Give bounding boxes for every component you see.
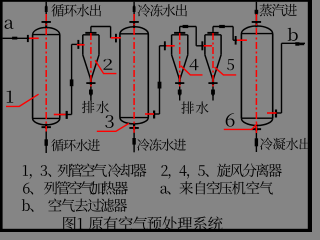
flange cyclone 2 inlet xyxy=(77,40,79,49)
red mark a inlet xyxy=(29,38,39,40)
flange cyclone 5 inlet xyxy=(201,41,203,50)
cyclone 2 (cyclone separator) body xyxy=(83,34,99,36)
border frame xyxy=(0,0,312,2)
pipe cyclone 2 outlet to vessel 3 xyxy=(90,27,92,32)
pipe cyclone 4 outlet to cyclone 5 xyxy=(179,27,181,32)
red mark vessel 1 outlet xyxy=(54,114,66,116)
text 排水 (drain) right xyxy=(181,101,208,113)
node b xyxy=(288,28,298,41)
red mark vessel 6 outlet xyxy=(267,112,277,114)
red leader label 4 xyxy=(181,66,203,75)
pipe circulating water out (top vessel 1) xyxy=(45,2,47,21)
pipe to cyclone 2 inlet xyxy=(72,43,83,45)
arrow riser 2 xyxy=(158,82,162,89)
vessel 6 (tube air heater) bottom nozzle xyxy=(255,125,257,131)
text 冷冻水出 (chilled water out) xyxy=(138,4,187,17)
red centerline vessel 1 xyxy=(45,14,47,132)
label 1 xyxy=(7,91,14,103)
cyclone 5 (cyclone separator) drain pipe xyxy=(212,84,214,101)
red mark vessel 6 inlet xyxy=(237,39,247,41)
red leader label 1 xyxy=(6,94,39,106)
label 6 xyxy=(226,113,235,127)
vessel 1 (tube air cooler) shell xyxy=(33,28,60,35)
cyclone 4 (cyclone separator) body xyxy=(172,34,188,36)
cyclone 5 (cyclone separator) top nozzle xyxy=(212,33,214,35)
flange vessel 6 inlet xyxy=(235,36,237,45)
red mark cyclone 2 inlet xyxy=(77,44,85,46)
vessel 1 (tube air cooler) bottom pipe xyxy=(45,128,47,153)
pipe steam in (top vessel 6) xyxy=(255,2,257,21)
caption 图1 原有空气预处理系统 xyxy=(63,216,222,230)
label 4 xyxy=(190,59,199,70)
pipe to cyclone 4 inlet xyxy=(160,45,172,47)
arrow outlet b xyxy=(295,42,299,46)
flange cyclone 4 inlet xyxy=(164,41,166,50)
red leader label 6 xyxy=(224,124,257,130)
vessel 3 air outlet nozzle xyxy=(148,113,159,115)
legend line 2 right: a 来自空压机空气 xyxy=(160,181,272,194)
pipe cyclone 5 outlet to vessel 6 xyxy=(212,27,214,32)
legend line 2 left: 6 列管空气加热器 xyxy=(23,181,128,195)
text 循环水出 (circulating water out) xyxy=(51,4,101,16)
cyclone 5 (cyclone separator) body xyxy=(205,34,221,36)
cyclone 5 (cyclone separator) drain nozzle xyxy=(212,78,214,85)
red leader label 3 xyxy=(97,123,129,131)
label 2 xyxy=(103,59,112,70)
text 冷凝水出 (condensate out) xyxy=(260,138,310,150)
legend line 1 left: 1,3 列管空气冷却器 xyxy=(23,163,147,178)
label 3 xyxy=(105,115,113,128)
red centerline cyclone 4 xyxy=(179,33,181,88)
red mark cyclone 4 inlet xyxy=(166,45,175,47)
red mark cyclone 5 inlet xyxy=(204,45,213,47)
vessel 6 (tube air heater) bottom pipe xyxy=(255,130,257,152)
red centerline vessel 6 xyxy=(255,14,257,134)
red centerline vessel 3 xyxy=(133,14,135,133)
label 5 xyxy=(227,59,234,70)
riser vessel 3 to cyclone 4 xyxy=(159,46,161,114)
text 冷冻水进 (chilled water in) xyxy=(137,139,186,151)
vessel 3 (tube air cooler) bottom nozzle xyxy=(133,123,135,130)
red leader label 2 xyxy=(95,60,116,73)
riser vessel 6 to outlet b xyxy=(281,43,283,113)
vessel 1 air outlet nozzle xyxy=(60,114,72,116)
arrow cyclone 5 outlet xyxy=(219,25,225,28)
flange vessel 3 inlet xyxy=(115,34,117,43)
vessel 1 (tube air cooler) bottom nozzle xyxy=(45,124,47,129)
riser vessel 1 to cyclone 2 xyxy=(71,44,73,114)
vessel 1 (tube air cooler) top nozzle xyxy=(45,22,47,29)
vessel 6 (tube air heater) shell xyxy=(241,26,272,34)
legend line 3: b 空气去过滤器 xyxy=(22,198,127,212)
vessel 6 air outlet nozzle xyxy=(273,112,282,114)
arrow cyclone 4 outlet xyxy=(183,25,189,28)
cyclone 2 (cyclone separator) drain nozzle xyxy=(90,78,92,85)
pipe chilled water out (top vessel 3) xyxy=(133,2,135,21)
cyclone 4 (cyclone separator) drain pipe xyxy=(179,84,181,101)
arrow steam in xyxy=(255,10,259,14)
red mark vessel 3 outlet xyxy=(145,113,154,115)
vessel 6 (tube air heater) top nozzle xyxy=(255,22,257,27)
cyclone 2 (cyclone separator) top nozzle xyxy=(90,33,92,35)
vessel 3 (tube air cooler) shell xyxy=(120,27,148,34)
arrow chilled water out xyxy=(133,7,136,12)
flange a inlet xyxy=(27,35,29,42)
red mark vessel 3 inlet xyxy=(111,37,121,39)
arrow riser 1 xyxy=(70,79,74,86)
red centerline cyclone 2 xyxy=(90,33,92,88)
node a xyxy=(5,20,14,29)
text 循环水进 (circulating water in) xyxy=(51,139,100,151)
vessel 3 (tube air cooler) top nozzle xyxy=(133,22,135,28)
red leader label 5 xyxy=(215,67,237,75)
legend line 1 right: 2,4,5 旋风分离器 xyxy=(161,164,282,179)
arrow circulating water out xyxy=(45,7,48,12)
cyclone 4 (cyclone separator) top nozzle xyxy=(179,33,181,35)
cyclone 2 (cyclone separator) drain pipe xyxy=(90,84,92,101)
vessel 3 (tube air cooler) bottom pipe xyxy=(133,129,135,152)
pipe outlet b xyxy=(282,42,306,44)
pipe a inlet xyxy=(3,37,33,39)
arrow a inlet xyxy=(12,37,17,40)
cyclone 4 (cyclone separator) drain nozzle xyxy=(179,78,181,85)
text 排水 (drain) left xyxy=(82,101,109,113)
text 蒸汽进 (steam in) xyxy=(259,4,296,16)
red centerline cyclone 5 xyxy=(212,33,214,88)
